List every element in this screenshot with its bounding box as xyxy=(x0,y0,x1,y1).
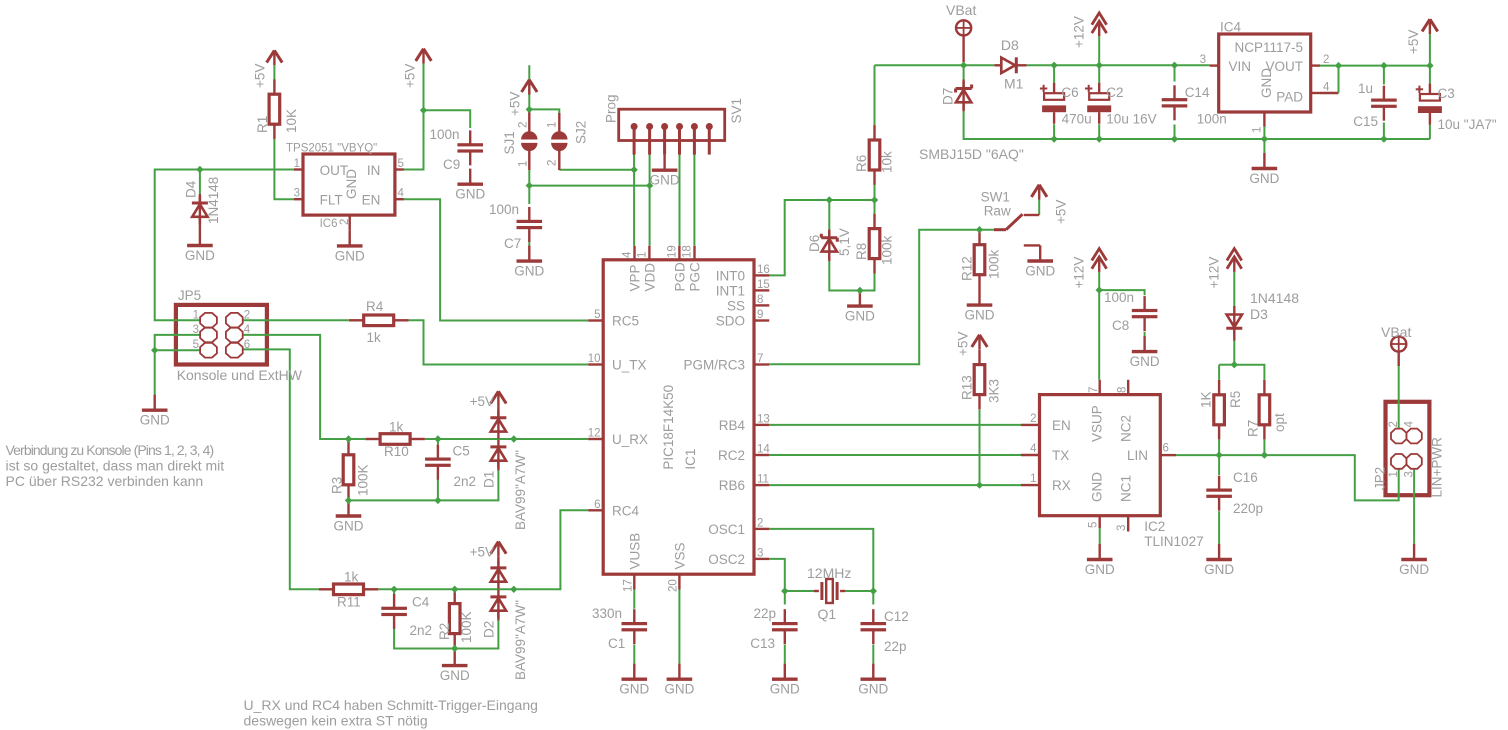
svg-text:330n: 330n xyxy=(592,606,622,621)
pin TPS2051 pin2 GND xyxy=(349,215,351,230)
wire JP5 pin3 to ground junction xyxy=(155,335,201,350)
wire C12 bottom xyxy=(872,645,874,664)
svg-text:GND: GND xyxy=(335,248,365,263)
pin IC4 VIN (3) xyxy=(1200,54,1219,66)
resistor R5 xyxy=(1214,380,1225,440)
ground under R2 xyxy=(440,650,470,683)
junction JP5 pin5 / GND xyxy=(151,347,158,354)
svg-text:PAD: PAD xyxy=(1276,90,1303,105)
pin SJ2 top xyxy=(558,113,560,132)
svg-text:5: 5 xyxy=(1088,522,1100,528)
+12V arrow above C8 xyxy=(1092,249,1107,272)
wire R4 right to U_TX pin10 xyxy=(409,320,589,364)
pin JP5 pin4 xyxy=(226,324,251,342)
capacitor C5 xyxy=(425,445,451,480)
svg-text:GND: GND xyxy=(664,682,694,697)
wire +5V to SJ1 junction xyxy=(528,65,530,113)
svg-text:GND: GND xyxy=(770,682,800,697)
pin TPS2051 pin5 IN xyxy=(395,168,404,170)
svg-text:U_TX: U_TX xyxy=(612,358,647,373)
svg-text:EN: EN xyxy=(1052,418,1071,433)
svg-text:D3: D3 xyxy=(1250,306,1268,322)
+5V arrow above R13 xyxy=(972,335,988,350)
svg-text:2n2: 2n2 xyxy=(410,623,433,638)
svg-text:+5V: +5V xyxy=(1406,30,1421,54)
wire SV1 pin5 to PGC xyxy=(693,155,695,246)
resistor R1 xyxy=(269,79,280,139)
svg-text:NCP1117-5: NCP1117-5 xyxy=(1235,40,1304,55)
svg-text:2n2: 2n2 xyxy=(454,474,477,489)
svg-text:+12V: +12V xyxy=(1072,16,1087,48)
wire D7 bottom to gnd bus xyxy=(964,111,1430,139)
wire C8 bottom xyxy=(1144,332,1146,336)
wire R5 top drop xyxy=(1218,365,1220,380)
junction C14 top xyxy=(1171,62,1178,69)
svg-text:12: 12 xyxy=(588,428,601,440)
pin IC1 VPP top (pin 4) xyxy=(622,246,635,260)
svg-text:PGM/RC3: PGM/RC3 xyxy=(683,358,745,373)
svg-text:GND: GND xyxy=(185,248,215,263)
svg-text:+5V: +5V xyxy=(470,545,494,560)
pin JP5 pin1 xyxy=(193,309,217,327)
wire C2 top xyxy=(1098,65,1100,83)
pin TPS2051 pin3 FLT xyxy=(294,198,303,200)
svg-text:C9: C9 xyxy=(443,157,460,172)
pin IC1 PGD top (pin 19) xyxy=(666,245,679,260)
capacitor C2 10u xyxy=(1085,83,1111,124)
svg-text:RC4: RC4 xyxy=(612,503,639,518)
pin IC1 VDD top (pin 1) xyxy=(636,246,649,260)
switch SW1 blade xyxy=(1006,214,1023,230)
svg-text:GND: GND xyxy=(845,309,875,324)
wire SV1 pin2 stub to junction xyxy=(649,155,651,186)
pin SJ1 bottom xyxy=(528,151,530,170)
pin IC1 RB4 (pin 13) xyxy=(754,413,770,425)
svg-text:3: 3 xyxy=(294,188,300,200)
wire OSC1 to crystal right xyxy=(769,529,873,591)
pin IC2 EN (pin 2) xyxy=(1021,413,1040,425)
pin IC2 LIN (6) xyxy=(1160,443,1176,456)
svg-text:4: 4 xyxy=(398,188,405,200)
ground under TPS2051 xyxy=(335,230,365,263)
svg-text:OSC1: OSC1 xyxy=(708,522,745,537)
junction U_RX / R3 / R10 xyxy=(345,435,352,442)
wire LIN net xyxy=(1176,455,1399,500)
resistor R4 xyxy=(349,315,409,326)
svg-text:NC2: NC2 xyxy=(1119,415,1134,442)
svg-text:1K: 1K xyxy=(1199,391,1214,408)
wire OUT net from TPS2051 pin1 to JP5 pin1 xyxy=(155,170,294,321)
svg-text:+5V: +5V xyxy=(470,394,494,409)
ground at SW1 NC xyxy=(1025,245,1055,278)
svg-text:6: 6 xyxy=(594,499,600,511)
wire SV1 pin1 stub to junction xyxy=(633,155,635,170)
ground under IC2 xyxy=(1085,544,1115,577)
capacitor C9 xyxy=(457,130,483,165)
pin D1 bottom xyxy=(497,461,499,471)
svg-text:OSC2: OSC2 xyxy=(708,552,745,567)
svg-text:2: 2 xyxy=(518,122,530,128)
svg-text:SDO: SDO xyxy=(716,314,745,329)
pin IC1 SDO (pin 9) xyxy=(754,309,769,321)
wire RB6 to IC2 RX xyxy=(769,484,1021,486)
svg-text:2: 2 xyxy=(1323,54,1329,66)
wire R11 right to C4 junction xyxy=(378,588,454,590)
wire R7 bottom to LIN xyxy=(1263,440,1265,455)
junction R5 / LIN / C16 xyxy=(1215,451,1222,458)
diode D2 lower half xyxy=(490,590,506,618)
svg-text:R10: R10 xyxy=(384,444,409,459)
wire C4 bottom to R2 bottom row xyxy=(394,620,498,649)
svg-text:470u: 470u xyxy=(1062,111,1092,126)
connector SV1 body xyxy=(619,109,725,140)
switch SW1 pole xyxy=(994,228,1006,231)
svg-text:22p: 22p xyxy=(884,639,907,654)
capacitor C16 220p xyxy=(1206,476,1232,511)
svg-text:R6: R6 xyxy=(854,155,869,172)
junction C2 / +12V top xyxy=(1096,62,1103,69)
wire R7 top branch xyxy=(1234,365,1264,380)
svg-text:SV1: SV1 xyxy=(729,98,744,124)
wire C15 bottom xyxy=(1383,123,1385,140)
solder jumper SJ2 xyxy=(551,131,567,151)
wire RC2 to IC2 TX xyxy=(769,454,1021,456)
svg-text:D4: D4 xyxy=(184,180,199,198)
ground under C13 xyxy=(770,664,800,697)
junction SV1 pin1 / SJ2 net xyxy=(630,166,637,173)
IC IC1 PIC18F14K50 body xyxy=(603,260,754,574)
pin SV1 pin2 xyxy=(646,123,653,155)
wire SJ2 bottom to SV1 pin1 line xyxy=(559,170,634,246)
pin TPS2051 pin1 OUT xyxy=(294,168,303,170)
svg-text:7: 7 xyxy=(1088,387,1100,393)
VBat at JP2 xyxy=(1391,336,1406,351)
pin IC1 RC4 (pin 6) xyxy=(588,499,603,511)
wire R8 bottom to gnd junction xyxy=(860,271,875,291)
resistor R13 xyxy=(974,350,985,410)
solder jumper SJ1 xyxy=(521,131,537,151)
svg-text:2: 2 xyxy=(757,517,763,529)
svg-text:GND: GND xyxy=(1025,263,1055,278)
ground under C7 xyxy=(514,246,544,279)
svg-text:C12: C12 xyxy=(884,609,909,624)
+5V arrow top right xyxy=(1422,19,1438,34)
junction C3 / +5V rail xyxy=(1426,62,1433,69)
pin D4 top xyxy=(199,194,201,203)
svg-text:13: 13 xyxy=(757,413,770,425)
+5V arrow above R1 xyxy=(267,50,283,65)
svg-text:U_RX: U_RX xyxy=(612,432,648,447)
wire C4 hang xyxy=(393,589,395,598)
junction D1 / U_RX xyxy=(510,435,517,442)
VBat supply top xyxy=(956,20,971,35)
junction +5V / IN / C9 xyxy=(420,107,427,114)
wire C6 bottom xyxy=(1053,124,1055,139)
wire C12 top xyxy=(872,591,874,605)
svg-text:100K: 100K xyxy=(459,611,474,643)
wire PAD up to VOUT net xyxy=(1338,67,1340,93)
ground under R12 xyxy=(965,290,995,323)
capacitor C8 xyxy=(1132,296,1158,331)
pin IC4 VOUT (2) xyxy=(1311,54,1330,66)
wire JP5 pin6 down to R11 xyxy=(242,349,318,589)
svg-text:R11: R11 xyxy=(337,595,361,610)
+5V arrow at SW1 xyxy=(1031,185,1047,200)
ground under VSS xyxy=(664,664,694,697)
svg-text:2: 2 xyxy=(547,160,559,166)
+12V arrow above D3 xyxy=(1227,249,1242,272)
svg-text:R4: R4 xyxy=(366,299,384,314)
svg-text:SJ2: SJ2 xyxy=(574,121,589,144)
svg-text:VSUP: VSUP xyxy=(1090,405,1105,442)
svg-text:4: 4 xyxy=(622,251,634,258)
pin IC1 U_TX (pin 10) xyxy=(588,353,603,365)
diode D8 M1 xyxy=(1001,57,1016,73)
svg-text:JP5: JP5 xyxy=(178,288,201,303)
svg-text:IN: IN xyxy=(367,163,381,178)
resistor R8 xyxy=(869,214,880,274)
wire D7 branch xyxy=(963,65,965,79)
ground under D4 xyxy=(185,230,215,263)
wire R8 top xyxy=(874,200,876,214)
wire RC4 row to D2 and up to pin6 xyxy=(455,510,589,589)
wire IC4 gnd pin to bus xyxy=(1263,127,1265,153)
svg-text:VPP: VPP xyxy=(628,264,643,291)
wire R6 bottom to junction xyxy=(874,185,876,201)
svg-text:GND: GND xyxy=(1130,354,1160,369)
ground under R3 xyxy=(334,500,364,533)
wire VBat to JP2 pin2 xyxy=(1398,364,1400,429)
pin D2 bottom xyxy=(497,611,499,621)
svg-text:EN: EN xyxy=(362,193,381,208)
svg-text:ist so gestaltet, dass man dir: ist so gestaltet, dass man direkt mit xyxy=(6,457,225,473)
wire R12 top xyxy=(979,230,981,233)
svg-text:11: 11 xyxy=(757,474,769,486)
wire C14 bottom xyxy=(1174,125,1176,140)
capacitor C6 470u xyxy=(1040,83,1066,124)
wire R5 top branch xyxy=(1219,364,1234,366)
resistor R10 xyxy=(365,434,425,445)
pin D8 left xyxy=(994,64,1001,66)
wire crystal row left xyxy=(785,590,814,592)
wire RB4 to IC2 EN xyxy=(769,424,1021,426)
wire VBat to +12V input bus xyxy=(963,60,965,65)
capacitor C7 xyxy=(517,207,543,242)
svg-text:1: 1 xyxy=(193,309,199,321)
pin IC4 PAD (4) xyxy=(1311,82,1330,94)
wire C16 top xyxy=(1218,455,1220,475)
svg-text:GND: GND xyxy=(334,518,364,533)
junction C6 bottom xyxy=(1050,135,1057,142)
wire C16 bottom to GND xyxy=(1218,511,1220,544)
svg-text:1k: 1k xyxy=(344,570,359,585)
wire EN pin4 down to RC5 xyxy=(404,199,588,320)
svg-text:20: 20 xyxy=(667,579,679,592)
junction VBat / D7 / bus xyxy=(960,62,967,69)
ground under IC4 xyxy=(1249,153,1279,186)
wire R6 top from +12V bus corner xyxy=(874,65,876,125)
capacitor C3 10u JA7 xyxy=(1416,84,1442,125)
wire +5V to R1 top xyxy=(273,65,275,80)
svg-text:18: 18 xyxy=(682,245,694,258)
svg-text:GND: GND xyxy=(1090,472,1105,502)
svg-text:SS: SS xyxy=(727,298,745,313)
svg-text:R13: R13 xyxy=(960,375,975,400)
svg-text:LIN+PWR: LIN+PWR xyxy=(1430,437,1445,498)
ground under D6/R8 xyxy=(845,291,875,324)
svg-text:100K: 100K xyxy=(356,464,371,496)
resistor R3 xyxy=(343,440,354,500)
pin SJ1 top xyxy=(528,109,530,131)
wire SJ1 junction row to SV1 pin2 line xyxy=(529,186,649,246)
svg-text:8: 8 xyxy=(1117,387,1129,393)
resistor R12 xyxy=(974,230,985,290)
svg-text:U_RX und RC4 haben Schmitt-Tri: U_RX und RC4 haben Schmitt-Trigger-Einga… xyxy=(244,697,538,713)
svg-text:1: 1 xyxy=(547,122,559,128)
capacitor C12 22p xyxy=(861,609,887,644)
pin D1 stem xyxy=(497,406,499,418)
svg-text:PGD: PGD xyxy=(672,262,687,292)
svg-text:14: 14 xyxy=(757,444,770,456)
wire OSC2 to crystal left xyxy=(769,559,785,591)
svg-text:3: 3 xyxy=(193,324,199,336)
svg-text:Q1: Q1 xyxy=(818,606,837,622)
svg-text:5: 5 xyxy=(193,339,199,351)
junction C14 bottom xyxy=(1171,135,1178,142)
junction C4 / R2 / D2 xyxy=(451,586,458,593)
svg-text:4: 4 xyxy=(1030,443,1037,455)
svg-text:1: 1 xyxy=(518,161,530,167)
svg-text:7: 7 xyxy=(757,353,763,365)
ground under JP2 pin3 xyxy=(1399,544,1429,577)
svg-text:PGC: PGC xyxy=(688,262,703,292)
pin IC1 OSC1 (pin 2) xyxy=(754,517,769,529)
svg-text:GND: GND xyxy=(344,169,359,199)
svg-text:100n: 100n xyxy=(489,202,519,217)
svg-text:1u: 1u xyxy=(1358,81,1373,96)
connector JP2 body xyxy=(1386,402,1430,495)
wire JP2 pin3 to GND xyxy=(1413,470,1415,544)
wire SV1 pin4 to PGD xyxy=(679,155,681,246)
pin D7 top xyxy=(962,80,964,89)
svg-text:GND: GND xyxy=(650,173,680,188)
junction OSC1 / C12 / crystal xyxy=(870,587,877,594)
svg-text:GND: GND xyxy=(858,682,888,697)
connector JP5 body xyxy=(176,305,267,365)
pin D2 stem xyxy=(497,556,499,568)
pin JP2 pin4 xyxy=(1404,421,1422,444)
svg-text:PIC18F14K50: PIC18F14K50 xyxy=(661,385,676,470)
svg-text:D6: D6 xyxy=(807,235,822,252)
svg-text:1: 1 xyxy=(294,158,300,170)
svg-text:10u 16V: 10u 16V xyxy=(1106,111,1156,126)
pin IC1 PGM/RC3 (pin 7) xyxy=(754,353,769,365)
svg-text:VDD: VDD xyxy=(642,263,657,292)
pin SV1 pin4 xyxy=(676,123,683,155)
ground under C9 xyxy=(455,169,485,202)
svg-text:Konsole und ExtHW: Konsole und ExtHW xyxy=(177,367,303,383)
svg-text:R8: R8 xyxy=(854,243,869,260)
svg-text:RC5: RC5 xyxy=(612,314,639,329)
svg-text:GND: GND xyxy=(1259,68,1274,98)
svg-text:100n: 100n xyxy=(430,127,460,142)
svg-text:10u "JA7": 10u "JA7" xyxy=(1438,117,1497,132)
svg-text:+5V: +5V xyxy=(1054,200,1069,224)
junction R6 / R8 / D6 row xyxy=(871,196,878,203)
svg-text:+5V: +5V xyxy=(403,64,418,88)
svg-text:SJ1: SJ1 xyxy=(502,131,517,154)
svg-text:SMBJ15D "6AQ": SMBJ15D "6AQ" xyxy=(919,146,1024,162)
svg-text:4: 4 xyxy=(244,324,251,336)
svg-text:JP2: JP2 xyxy=(1373,467,1388,490)
diode D2 upper half xyxy=(490,561,506,589)
wire SJ1 bottom to junction and C7 xyxy=(528,170,530,204)
svg-text:IC4: IC4 xyxy=(1220,20,1242,35)
pin SV1 pin5 xyxy=(691,123,698,155)
pin JP5 pin5 xyxy=(193,339,217,357)
pin D3 bottom xyxy=(1233,328,1235,340)
svg-text:C5: C5 xyxy=(453,444,470,459)
svg-text:100n: 100n xyxy=(1104,290,1134,305)
junction R13 / RX net xyxy=(976,481,983,488)
svg-text:FLT: FLT xyxy=(320,193,343,208)
junction D2 / RC4 xyxy=(510,586,517,593)
svg-text:D2: D2 xyxy=(482,621,497,638)
svg-text:8: 8 xyxy=(757,294,763,306)
zener diode D7 SMBJ15D xyxy=(956,82,972,110)
svg-text:GND: GND xyxy=(455,187,485,202)
pin IC2 VSUP (7) xyxy=(1088,380,1100,395)
+12V arrow top xyxy=(1092,13,1107,36)
diode D1 upper half xyxy=(490,411,506,439)
junction SW1 pole / R12 xyxy=(976,226,983,233)
pin D4 bottom xyxy=(199,217,201,230)
wire D8 to C6/C2/C14/VIN bus xyxy=(1027,64,1210,66)
pin IC1 RC5 (pin 5) xyxy=(588,309,603,321)
capacitor C13 22p xyxy=(772,609,798,644)
pin TPS2051 pin4 EN xyxy=(395,198,404,200)
wire R5 bottom to LIN xyxy=(1218,440,1220,455)
junction R7 / LIN xyxy=(1261,451,1268,458)
pin SV1 pin3 xyxy=(661,123,668,155)
svg-text:+5V: +5V xyxy=(508,92,523,116)
junction D6 / R8 ground xyxy=(856,287,863,294)
svg-text:3: 3 xyxy=(1200,54,1206,66)
svg-text:C14: C14 xyxy=(1185,85,1210,100)
svg-text:RB6: RB6 xyxy=(719,478,745,493)
wire +12V to C8 junction and VSUP xyxy=(1098,272,1100,380)
IC U1 TPS2051 body xyxy=(303,154,395,215)
wire +12V arrow to bus xyxy=(1098,36,1100,65)
junction C15 bottom xyxy=(1380,135,1387,142)
svg-text:M1: M1 xyxy=(1004,76,1024,92)
pin VBat JP2 stem xyxy=(1397,352,1399,366)
svg-text:6: 6 xyxy=(244,339,250,351)
junction C2 bottom xyxy=(1096,135,1103,142)
svg-text:D7: D7 xyxy=(941,88,956,105)
wire C14 top xyxy=(1174,65,1176,81)
wire D6 bottom to gnd junction xyxy=(829,261,860,291)
svg-text:GND: GND xyxy=(1399,562,1429,577)
ground under C12 xyxy=(858,664,888,697)
svg-text:+12V: +12V xyxy=(1072,257,1087,289)
svg-text:19: 19 xyxy=(666,245,678,258)
svg-text:INT1: INT1 xyxy=(716,283,745,298)
switch SW1 throw contact xyxy=(1024,214,1039,216)
svg-text:TPS2051 "VBYQ": TPS2051 "VBYQ" xyxy=(286,143,377,155)
svg-text:12MHz: 12MHz xyxy=(807,565,851,581)
resistor R2 xyxy=(449,589,460,649)
